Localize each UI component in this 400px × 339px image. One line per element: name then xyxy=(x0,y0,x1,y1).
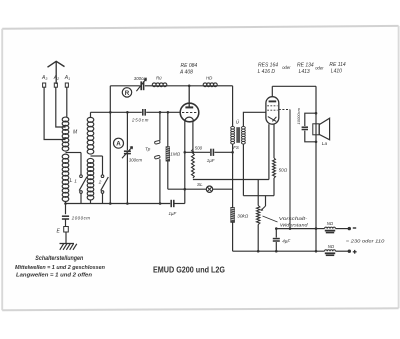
svg-text:4µF: 4µF xyxy=(282,239,291,244)
svg-text:L: L xyxy=(70,178,73,184)
svg-text:10000cm: 10000cm xyxy=(296,107,301,124)
svg-text:30kΩ: 30kΩ xyxy=(237,213,248,218)
svg-text:L413: L413 xyxy=(299,69,310,75)
svg-text:EMUD G200 und L2G: EMUD G200 und L2G xyxy=(153,265,225,275)
svg-text:La: La xyxy=(322,141,328,147)
svg-text:RE 114: RE 114 xyxy=(329,62,346,68)
svg-text:1µF: 1µF xyxy=(169,211,177,216)
svg-text:RE 084: RE 084 xyxy=(181,63,198,69)
svg-text:L410: L410 xyxy=(331,69,342,75)
svg-text:Rü: Rü xyxy=(156,76,162,81)
svg-text:Schalterstellungen: Schalterstellungen xyxy=(35,255,83,262)
svg-text:Langwellen = 1 und 2 offen: Langwellen = 1 und 2 offen xyxy=(16,272,93,278)
svg-text:1MΩ: 1MΩ xyxy=(170,152,180,157)
svg-text:1µF: 1µF xyxy=(207,158,215,163)
svg-text:RES 164: RES 164 xyxy=(258,62,278,68)
svg-text:Tp: Tp xyxy=(145,147,151,152)
svg-text:A: A xyxy=(116,141,121,148)
svg-text:SL: SL xyxy=(197,182,203,187)
svg-text:RE 134: RE 134 xyxy=(297,62,314,68)
svg-text:oder: oder xyxy=(315,66,324,71)
svg-text:A 408: A 408 xyxy=(179,69,193,75)
svg-text:R: R xyxy=(125,90,130,97)
svg-text:2: 2 xyxy=(98,180,102,185)
svg-text:250cm: 250cm xyxy=(131,117,149,122)
svg-text:Mittelwellen = 1 und 2 gesch: Mittelwellen = 1 und 2 geschlossen xyxy=(15,265,105,271)
svg-text:L 416 D: L 416 D xyxy=(258,69,276,75)
svg-text:2000cm: 2000cm xyxy=(71,216,91,221)
svg-text:ND: ND xyxy=(327,221,334,226)
svg-text:= 230 oder 110: = 230 oder 110 xyxy=(346,238,385,244)
svg-text:300cm: 300cm xyxy=(129,158,143,163)
svg-text:Vorschalt-: Vorschalt- xyxy=(279,216,308,222)
svg-text:ND: ND xyxy=(328,244,335,249)
svg-text:HD: HD xyxy=(206,76,213,81)
svg-text:300cm: 300cm xyxy=(134,76,148,81)
svg-text:50Ω: 50Ω xyxy=(279,168,288,173)
svg-text:Widerstand: Widerstand xyxy=(280,222,308,228)
svg-text:oder: oder xyxy=(282,65,291,70)
svg-text:500: 500 xyxy=(195,145,203,150)
svg-text:Ü: Ü xyxy=(236,119,240,126)
svg-text:1: 1 xyxy=(74,179,77,184)
svg-text:FS: FS xyxy=(233,145,239,150)
